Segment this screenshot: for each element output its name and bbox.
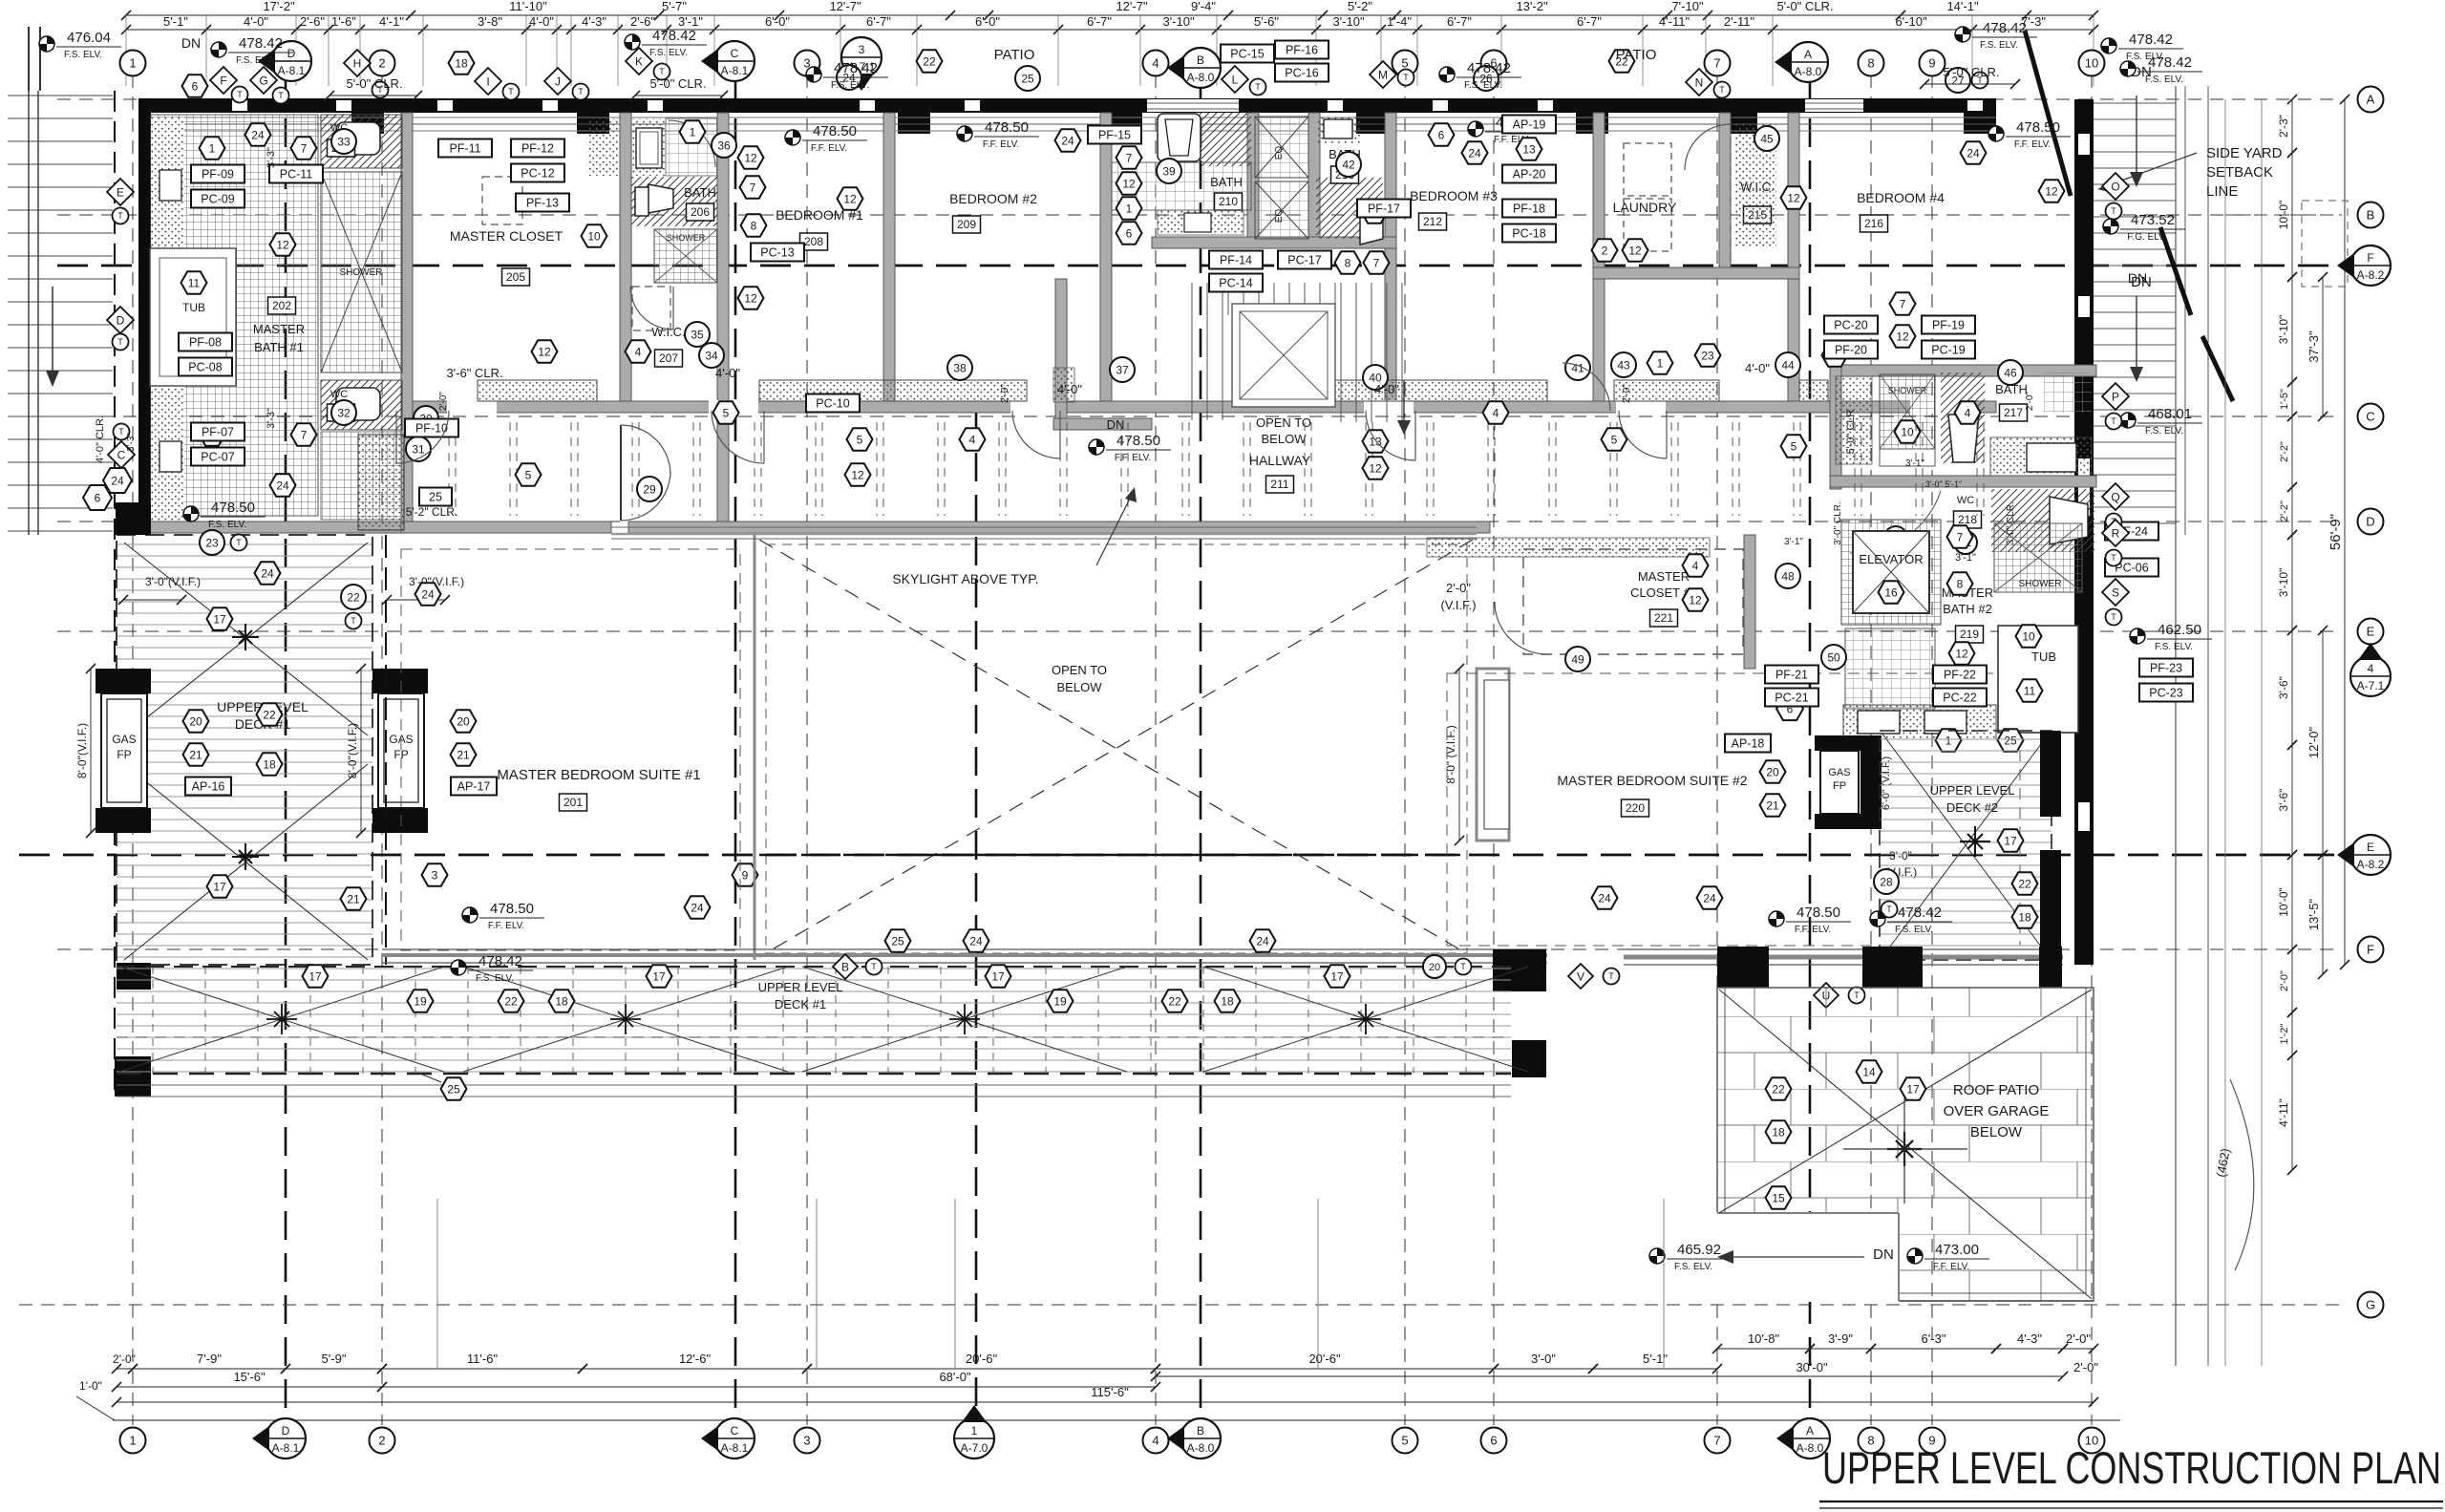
svg-text:PC-15: PC-15: [1230, 47, 1264, 60]
svg-text:E: E: [2367, 841, 2374, 854]
svg-text:16: 16: [1884, 586, 1898, 599]
svg-text:24: 24: [969, 934, 983, 948]
suite1 elev: [462, 907, 478, 923]
deck strip vertical dashes: [153, 967, 1466, 1074]
svg-text:4: 4: [1152, 56, 1159, 71]
svg-text:PC-20: PC-20: [1834, 318, 1867, 331]
vertical grid line 8: [1870, 75, 1872, 1425]
svg-text:4'-3": 4'-3": [582, 14, 606, 29]
mbath2 shower: [1994, 523, 2082, 592]
svg-text:2'-0": 2'-0": [113, 1352, 136, 1366]
svg-text:17: 17: [308, 969, 322, 983]
svg-text:BELOW: BELOW: [1970, 1124, 2023, 1140]
grid bubble 5 bottom: [1393, 1428, 1418, 1454]
T circle top: [232, 87, 248, 103]
side yard setback diagonal 3: [2202, 336, 2233, 401]
svg-text:4'-0": 4'-0": [1057, 382, 1082, 396]
svg-text:8: 8: [1957, 577, 1964, 590]
top-left corner wall: [28, 27, 30, 91]
deck strip markers: [833, 954, 1472, 979]
right stair treads upper: [2094, 103, 2176, 282]
svg-text:PC-09: PC-09: [201, 192, 234, 205]
svg-text:2'-0": 2'-0": [1000, 384, 1010, 403]
T circle top: [372, 82, 389, 98]
roof patio inner border: [1725, 988, 2086, 1293]
svg-text:T: T: [351, 616, 356, 626]
svg-text:56'-9": 56'-9": [2328, 514, 2344, 550]
elev 478.42 top4: [1955, 27, 1970, 42]
wc203 hatch: [321, 115, 402, 168]
T circle top: [1714, 82, 1731, 98]
svg-text:MASTER: MASTER: [253, 322, 305, 336]
svg-text:F.S. ELV.: F.S. ELV.: [649, 48, 688, 58]
vertical grid line 2: [381, 75, 383, 1425]
svg-text:EQ: EQ: [1274, 209, 1285, 224]
svg-text:1'-2": 1'-2": [2279, 1023, 2290, 1044]
svg-text:V: V: [1577, 969, 1584, 983]
deck2 corner posts: [2040, 731, 2061, 817]
svg-text:45: 45: [1760, 132, 1774, 145]
svg-text:12: 12: [2045, 184, 2058, 198]
left E diamond: [107, 179, 134, 205]
wc203 label: [328, 139, 355, 157]
hallway hexagon 5-7: [1781, 435, 1807, 457]
svg-text:T: T: [278, 91, 284, 100]
svg-text:A-8.2: A-8.2: [2357, 268, 2385, 282]
svg-text:A-8.1: A-8.1: [721, 64, 749, 77]
svg-text:F.S. ELV.: F.S. ELV.: [1674, 1262, 1712, 1272]
svg-text:68'-0": 68'-0": [939, 1370, 971, 1384]
hallway top wall: [413, 401, 1996, 413]
svg-text:F.F. ELV.: F.F. ELV.: [1795, 925, 1831, 935]
grid bubble 4 top: [1143, 51, 1169, 76]
svg-text:35: 35: [691, 328, 704, 341]
svg-text:24: 24: [1061, 134, 1074, 147]
elevator shaft: [1853, 531, 1929, 613]
elev 478.42 top3: [1439, 67, 1455, 82]
right dim extension lines: [2224, 99, 2226, 1366]
elev 478.50 left: [183, 506, 199, 522]
grid bubble C right: [2358, 404, 2384, 430]
svg-text:10: 10: [2085, 56, 2098, 71]
svg-text:3'-10": 3'-10": [1162, 14, 1195, 29]
bottom dim line 3: [117, 1401, 2094, 1403]
open area top edge: [611, 533, 1477, 536]
gas fp left post bottom: [96, 808, 151, 833]
vertical grid line 7: [1716, 75, 1718, 1425]
svg-text:3'-10": 3'-10": [2277, 315, 2290, 345]
svg-text:201: 201: [563, 796, 583, 809]
svg-text:18: 18: [2018, 910, 2031, 924]
top wall window sill lines: [138, 117, 1996, 118]
carpet stipple band 5: [1799, 380, 1828, 401]
horizontal grid line A: [57, 98, 2342, 100]
svg-text:PATIO: PATIO: [994, 47, 1035, 63]
svg-text:PC-19: PC-19: [1931, 343, 1965, 356]
svg-text:4'-0": 4'-0": [715, 366, 740, 380]
svg-text:BEDROOM #3: BEDROOM #3: [1410, 188, 1498, 203]
master bath tile lower right: [321, 432, 401, 520]
svg-text:218: 218: [1958, 513, 1977, 526]
svg-text:T: T: [236, 538, 242, 547]
svg-text:PF-13: PF-13: [526, 196, 559, 209]
deck strip X cross 3: [802, 967, 1127, 1072]
svg-text:5'-2": 5'-2": [1348, 0, 1372, 13]
section marker B top: [1180, 48, 1221, 88]
T circle top: [573, 84, 589, 100]
svg-text:PC-10: PC-10: [816, 396, 849, 410]
svg-text:7'-9": 7'-9": [197, 1352, 222, 1366]
bath217 clr stipple: [1836, 376, 1872, 464]
svg-text:PF-08: PF-08: [189, 335, 222, 349]
svg-text:3'-6" CLR.: 3'-6" CLR.: [446, 366, 502, 380]
svg-text:F.S. ELV.: F.S. ELV.: [1980, 40, 2018, 51]
master bath1 tub: [150, 248, 236, 386]
open area X: [759, 540, 1473, 957]
svg-text:22: 22: [2018, 877, 2031, 890]
pf-22 boxes: [1933, 666, 1987, 684]
svg-text:211: 211: [1270, 478, 1288, 491]
side yard setback diagonal 1: [2025, 31, 2071, 196]
grid bubble A right: [2358, 87, 2384, 113]
svg-text:K: K: [635, 54, 643, 68]
section marker E/A-8.2 right: [2350, 835, 2391, 875]
svg-text:F.F. ELV.: F.F. ELV.: [2014, 139, 2051, 150]
upper area circles: [331, 129, 356, 154]
wall bath213 | bedroom3: [1385, 113, 1396, 411]
bottom elevation markers: [1649, 1248, 1665, 1264]
bath217 shower: [1880, 374, 1935, 449]
horizontal grid line D: [57, 521, 2342, 522]
black post suite2 mid: [1862, 947, 1923, 988]
svg-text:12: 12: [1896, 330, 1909, 343]
svg-text:4'-0": 4'-0": [529, 14, 554, 29]
svg-text:220: 220: [1626, 801, 1645, 815]
left property dashed line: [114, 91, 116, 1098]
svg-text:A-8.1: A-8.1: [278, 64, 306, 77]
svg-text:DN: DN: [181, 35, 201, 51]
horizontal grid line E: [57, 630, 2342, 632]
svg-text:17: 17: [991, 969, 1005, 983]
roof patio X: [1719, 990, 2092, 1299]
svg-text:L: L: [1232, 73, 1239, 86]
carpet stipple band 2: [759, 380, 1027, 401]
letter diamond M top: [1370, 61, 1396, 88]
svg-text:12: 12: [843, 192, 857, 205]
elev 478.42 top2: [806, 67, 821, 82]
deck1 corner post bottom: [117, 963, 151, 990]
suite1 bottom wall: [382, 948, 1547, 950]
svg-text:5: 5: [1401, 56, 1408, 71]
svg-text:478.50: 478.50: [1797, 905, 1840, 921]
svg-text:473.52: 473.52: [2131, 212, 2175, 228]
svg-text:1: 1: [971, 1424, 978, 1437]
svg-text:206: 206: [691, 205, 710, 219]
suite1 left wall dashes: [385, 535, 387, 965]
black post suite1 right: [1493, 949, 1546, 991]
svg-text:15: 15: [1772, 1191, 1785, 1204]
svg-text:5'-0" CLR.: 5'-0" CLR.: [1776, 0, 1833, 13]
svg-text:11'-6": 11'-6": [467, 1352, 499, 1366]
deck hexagons mid: [885, 929, 911, 951]
svg-text:478.42: 478.42: [1898, 905, 1942, 921]
left hex 24: [103, 468, 132, 493]
svg-text:207: 207: [659, 351, 678, 365]
svg-text:20: 20: [189, 714, 202, 728]
svg-text:A-8.0: A-8.0: [1187, 71, 1215, 84]
svg-text:C: C: [2366, 410, 2374, 424]
svg-text:1'-4": 1'-4": [1387, 14, 1412, 29]
svg-text:C: C: [117, 448, 126, 461]
hex 13 ap19: [1517, 138, 1542, 160]
master bath1 bottom wall: [138, 522, 401, 533]
svg-text:3'-6": 3'-6": [2277, 789, 2290, 812]
suite2 elevs: [1769, 911, 1784, 926]
carpet stipple band 4: [1614, 380, 1719, 401]
svg-text:39: 39: [1162, 164, 1176, 178]
svg-text:BELOW: BELOW: [1057, 680, 1103, 694]
grid bubble 6 top: [1481, 51, 1507, 76]
202 label: [268, 297, 296, 314]
svg-text:2'-11": 2'-11": [1724, 14, 1755, 29]
svg-text:4: 4: [1692, 559, 1699, 572]
svg-text:A-7.0: A-7.0: [961, 1441, 989, 1455]
hexagon 18 top: [449, 52, 475, 74]
svg-text:F.S. ELV.: F.S. ELV.: [2145, 75, 2183, 85]
svg-text:24: 24: [691, 901, 704, 914]
section marker D top: [271, 41, 311, 81]
svg-text:478.50: 478.50: [985, 119, 1029, 136]
deck1 dim 8ft right: [360, 669, 362, 833]
svg-text:B: B: [1197, 53, 1204, 67]
svg-text:SHOWER: SHOWER: [1888, 386, 1927, 395]
svg-text:37: 37: [1116, 363, 1129, 376]
right dim 56-9: [2344, 99, 2346, 965]
left D diamond: [107, 307, 134, 333]
roof patio notch: [1717, 1213, 1899, 1301]
svg-text:18: 18: [455, 56, 468, 70]
svg-text:8'-0" (V.I.F.): 8'-0" (V.I.F.): [1444, 725, 1457, 783]
grid bubble 10 top: [2079, 51, 2105, 76]
svg-text:4'-11": 4'-11": [1659, 14, 1690, 29]
svg-text:7: 7: [301, 141, 308, 155]
elevator walls hatch: [1841, 520, 1941, 625]
bottom dim line 1: [117, 1368, 133, 1370]
wall between master bath and master closet: [401, 113, 413, 533]
bath217 shower hex: [1895, 420, 1921, 442]
T circle top: [1398, 70, 1414, 86]
svg-text:J: J: [555, 75, 561, 88]
svg-text:FP: FP: [1833, 780, 1846, 792]
deck strip lower border lines: [117, 1084, 1511, 1086]
svg-text:22: 22: [263, 708, 276, 721]
svg-text:6'-0": 6'-0": [765, 14, 790, 29]
side yard setback diagonal 2: [2160, 227, 2191, 315]
elev 478.42 top1: [625, 34, 640, 50]
pf label boxes left: [191, 165, 244, 183]
svg-text:41: 41: [1571, 361, 1584, 374]
T circle top: [1250, 79, 1266, 96]
svg-text:AP-18: AP-18: [1732, 736, 1765, 750]
svg-text:2: 2: [378, 1434, 385, 1448]
wall bath206 | bedroom1: [717, 113, 729, 533]
svg-text:PC-14: PC-14: [1219, 276, 1252, 289]
svg-text:PC-13: PC-13: [760, 245, 794, 259]
bath210 tub: [1158, 114, 1201, 161]
horizontal grid line G: [19, 1304, 2342, 1306]
svg-text:PF-20: PF-20: [1835, 343, 1867, 356]
elev 478.50 room2: [957, 126, 972, 141]
svg-text:18: 18: [555, 994, 568, 1008]
letter diamond H top: [344, 50, 371, 76]
horizontal grid line C: [57, 415, 2342, 417]
elev 478.50 room4: [1988, 126, 2004, 141]
svg-text:22: 22: [1772, 1082, 1785, 1096]
deck1 left border dashes: [117, 535, 372, 965]
closet2 door: [1495, 602, 1547, 654]
svg-text:115'-6": 115'-6": [1091, 1385, 1129, 1399]
bath206 toilet: [635, 184, 673, 216]
elev 478.50 room1: [785, 130, 800, 145]
svg-text:37'-3": 37'-3": [2307, 330, 2321, 363]
pf-23 boxes: [2139, 659, 2193, 677]
svg-text:T: T: [2111, 416, 2116, 426]
svg-text:205: 205: [506, 270, 525, 284]
svg-text:PC-12: PC-12: [521, 166, 554, 180]
svg-text:A-8.0: A-8.0: [1797, 1441, 1824, 1455]
svg-text:3'-1": 3'-1": [1905, 458, 1924, 469]
svg-text:24: 24: [261, 566, 274, 580]
deck strip hatch: [117, 967, 1511, 1074]
svg-text:17: 17: [1906, 1082, 1920, 1096]
exterior wall top (black band): [138, 98, 1996, 113]
svg-text:F.S. ELV.: F.S. ELV.: [208, 520, 246, 530]
deck1 cross marker top: [232, 624, 259, 650]
svg-text:F.F. ELV.: F.F. ELV.: [811, 143, 847, 154]
svg-text:LINE: LINE: [2206, 183, 2238, 200]
svg-text:2'-6": 2'-6": [300, 14, 325, 29]
closet2 hexagons: [1683, 554, 1709, 576]
bath217 mid wall: [1830, 476, 2096, 487]
bath217 sink counter: [1990, 437, 2092, 478]
svg-text:ELEVATOR: ELEVATOR: [1859, 552, 1923, 566]
hallway hexagon 5-10: [713, 401, 739, 423]
gas fp right post top: [372, 669, 428, 693]
svg-text:3'-6": 3'-6": [2277, 676, 2290, 699]
hallway hexagon 13-2: [1363, 430, 1389, 452]
svg-text:29: 29: [643, 482, 656, 496]
svg-text:AP-16: AP-16: [192, 779, 225, 793]
right stair rails: [2175, 86, 2177, 1366]
vertical grid line 3: [806, 75, 808, 1425]
svg-text:13'-2": 13'-2": [1516, 0, 1548, 13]
mbath2 tile: [1845, 628, 1935, 709]
wc218 door arc: [1850, 491, 1941, 553]
svg-text:3'-9": 3'-9": [1828, 1331, 1853, 1346]
svg-text:24: 24: [1256, 934, 1269, 948]
svg-text:A-8.1: A-8.1: [721, 1441, 749, 1455]
svg-text:4'-11": 4'-11": [2277, 1098, 2290, 1127]
svg-text:T: T: [2111, 553, 2116, 563]
svg-text:3: 3: [432, 868, 438, 882]
T circle top: [273, 88, 289, 104]
svg-text:7: 7: [750, 181, 756, 194]
svg-text:DECK #2: DECK #2: [1946, 800, 1998, 815]
svg-text:PF-21: PF-21: [1775, 668, 1808, 681]
master bath1 tile floor: [151, 115, 318, 516]
svg-text:T: T: [1403, 73, 1409, 82]
svg-text:PF-18: PF-18: [1513, 202, 1545, 215]
letter diamond I top: [475, 68, 501, 95]
svg-text:46: 46: [2004, 366, 2017, 379]
svg-text:SKYLIGHT ABOVE TYP.: SKYLIGHT ABOVE TYP.: [892, 571, 1038, 586]
svg-text:19: 19: [1053, 994, 1067, 1008]
wall bedroom2 | bath210: [1100, 113, 1112, 411]
svg-text:T: T: [117, 211, 123, 221]
suite1 interior dashline: [401, 549, 740, 950]
gas fp right post bottom: [372, 808, 428, 833]
svg-text:A: A: [1804, 48, 1812, 61]
letter diamond S right: [2102, 579, 2129, 606]
grid bubble 3 top: [795, 51, 820, 76]
gas fp left post top: [96, 669, 151, 693]
svg-text:T: T: [508, 87, 514, 96]
letter diamond R right: [2102, 520, 2129, 546]
svg-text:6'-0": 6'-0": [975, 14, 1000, 29]
svg-text:462.50: 462.50: [2158, 622, 2201, 638]
svg-text:478.42: 478.42: [2129, 32, 2173, 48]
svg-text:T: T: [1719, 85, 1725, 95]
grid bubble 8 top: [1859, 51, 1884, 76]
suite2 gasfp surround: [1815, 735, 1882, 751]
svg-text:4: 4: [969, 433, 976, 446]
svg-text:9'-4": 9'-4": [1191, 0, 1216, 13]
svg-text:7: 7: [1126, 151, 1133, 164]
svg-text:N: N: [1695, 75, 1704, 89]
wc218 toilet: [2050, 497, 2088, 544]
svg-text:SIDE YARD: SIDE YARD: [2206, 145, 2283, 161]
svg-text:T: T: [871, 962, 877, 971]
svg-text:5'-0" CLR.: 5'-0" CLR.: [1943, 65, 1999, 79]
svg-text:F.S. ELV.: F.S. ELV.: [476, 973, 514, 984]
svg-text:BATH #1: BATH #1: [254, 340, 304, 354]
svg-text:PF-12: PF-12: [521, 141, 554, 155]
svg-text:25: 25: [447, 1082, 460, 1096]
grid bubble 3 bottom: [795, 1428, 820, 1454]
svg-text:DECK #1: DECK #1: [775, 997, 826, 1012]
right dim col 1: [2291, 99, 2293, 153]
left stair rail: [28, 91, 30, 535]
svg-text:217: 217: [2004, 406, 2023, 419]
svg-text:I: I: [486, 75, 489, 88]
closet2 stipple: [1427, 538, 1710, 557]
svg-text:3'-1": 3'-1": [678, 14, 703, 29]
wall wic215 | bedroom4: [1788, 113, 1799, 411]
svg-text:478.50: 478.50: [1116, 433, 1160, 449]
wall laundry | wic215: [1719, 113, 1731, 279]
svg-text:9: 9: [742, 868, 749, 882]
deck strip borders: [117, 966, 1511, 968]
svg-text:22: 22: [347, 590, 360, 604]
svg-text:3: 3: [859, 43, 865, 56]
svg-text:(V.I.F.): (V.I.F.): [1440, 598, 1476, 612]
svg-text:4: 4: [1965, 406, 1971, 419]
svg-text:5: 5: [723, 406, 730, 419]
gas fp left: [101, 693, 147, 808]
carpet stipple band 3: [1289, 380, 1547, 401]
svg-text:F.S. ELV.: F.S. ELV.: [1464, 80, 1502, 91]
svg-text:PC-18: PC-18: [1512, 226, 1545, 240]
